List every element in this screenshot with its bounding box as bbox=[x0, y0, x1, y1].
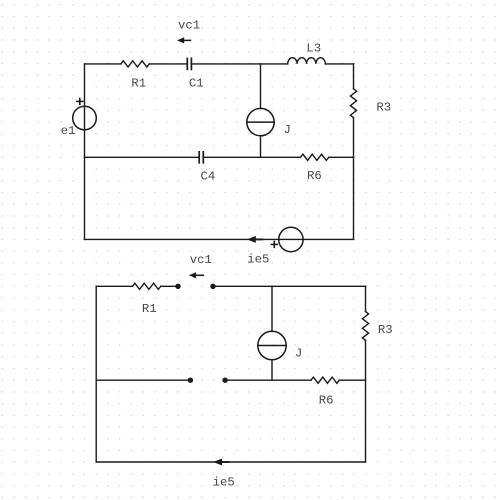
svg-text:ie5: ie5 bbox=[247, 253, 269, 267]
capacitor C4 bbox=[199, 152, 203, 163]
current source J (top circuit: circle with bar) bbox=[247, 108, 274, 135]
wire: bottom rail (bottom circuit) bbox=[96, 461, 365, 463]
wire: top rail left segment (bottom circuit) bbox=[96, 285, 132, 287]
wire: middle rail left segment (bottom circuit) bbox=[96, 379, 188, 381]
resistor R1 (bottom circuit) bbox=[133, 283, 161, 289]
resistor R6 (bottom circuit) bbox=[311, 377, 339, 383]
wire: top rail left segment (top circuit) bbox=[85, 63, 122, 65]
voltage source e1 (circle) bbox=[73, 106, 97, 130]
capacitor C1 bbox=[187, 58, 191, 69]
voltage source ie5 (circle) bbox=[279, 227, 303, 251]
plus sign (e1 polarity) bbox=[77, 99, 83, 105]
svg-text:e1: e1 bbox=[61, 124, 76, 138]
wire: right terminal to top-right corner (through node x=272) bbox=[215, 285, 366, 287]
wire: right rail upper segment (bottom circuit) bbox=[365, 286, 367, 311]
svg-text:R3: R3 bbox=[376, 101, 391, 115]
svg-text:J: J bbox=[295, 347, 302, 361]
wire: right rail upper segment bbox=[353, 64, 355, 89]
arrow: vc1 reference (bottom circuit) bbox=[189, 272, 204, 278]
wire: node drop to current source J (bottom circuit) bbox=[271, 286, 273, 331]
plus sign (ie5 polarity) bbox=[271, 242, 277, 248]
arrow: vc1 reference (top circuit) bbox=[177, 37, 191, 43]
svg-text:R6: R6 bbox=[307, 169, 322, 183]
wire: R1 to open terminal bbox=[161, 285, 176, 287]
resistor R1 (top circuit) bbox=[121, 61, 149, 67]
wire: C1 to L3 (through node at x=260.5) bbox=[192, 63, 288, 65]
wire: L3 to top-right corner bbox=[325, 63, 353, 65]
wire: C4 to R6 bbox=[204, 156, 300, 158]
wire: right rail lower segment bbox=[353, 118, 355, 240]
svg-text:J: J bbox=[284, 123, 291, 137]
terminal dot: middle rail right bbox=[222, 378, 227, 383]
wire: J to middle rail (bottom circuit) bbox=[271, 360, 273, 381]
terminal dot: vc1 right (top rail) bbox=[210, 284, 215, 289]
wire: node drop to current source J (top circuit) bbox=[260, 64, 262, 109]
svg-text:R1: R1 bbox=[131, 77, 146, 91]
resistor R6 (top circuit) bbox=[301, 154, 329, 160]
wire: J to middle rail (top circuit) bbox=[260, 136, 262, 158]
wire: left rail (bottom circuit) bbox=[95, 286, 97, 462]
svg-text:vc1: vc1 bbox=[178, 19, 200, 33]
terminal dot: vc1 left (top rail) bbox=[175, 284, 180, 289]
svg-text:ie5: ie5 bbox=[213, 475, 235, 489]
terminal dot: middle rail left bbox=[188, 378, 193, 383]
arrow: ie5 current direction on bottom rail (top circuit) bbox=[247, 236, 262, 243]
wire: middle rail left segment (top circuit) bbox=[85, 156, 199, 158]
wire: middle terminal to R6 (bottom circuit) bbox=[227, 379, 311, 381]
svg-text:C4: C4 bbox=[201, 170, 216, 184]
inductor L3 bbox=[288, 58, 326, 64]
arrow: ie5 current direction on bottom rail (bottom circuit) bbox=[213, 459, 228, 466]
resistor R3 (top circuit) bbox=[350, 89, 356, 118]
wire: bottom rail (top circuit, passes through ie5) bbox=[85, 238, 354, 240]
wire: R1 to C1 bbox=[149, 63, 186, 65]
current source J (bottom circuit: circle with bar) bbox=[258, 331, 286, 359]
wire: left rail (top circuit, passes through e1) bbox=[84, 64, 86, 240]
svg-text:C1: C1 bbox=[189, 77, 204, 91]
resistor R3 (bottom circuit) bbox=[362, 312, 368, 341]
svg-text:R1: R1 bbox=[142, 302, 157, 316]
wire: R6 to right rail bbox=[329, 156, 354, 158]
svg-text:vc1: vc1 bbox=[190, 253, 212, 267]
svg-text:R3: R3 bbox=[378, 323, 393, 337]
wire: right rail lower segment (bottom circuit) bbox=[365, 340, 367, 462]
wire: R6 to right rail (bottom circuit) bbox=[339, 379, 365, 381]
svg-text:L3: L3 bbox=[306, 42, 321, 56]
svg-text:R6: R6 bbox=[319, 394, 334, 408]
